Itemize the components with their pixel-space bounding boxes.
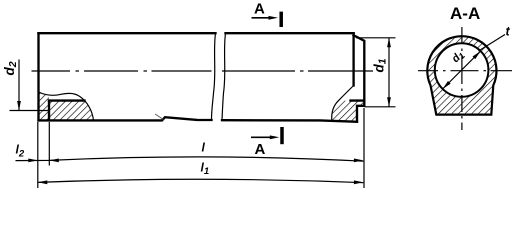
svg-text:A: A <box>254 1 265 18</box>
svg-text:A-A: A-A <box>450 4 480 23</box>
svg-text:A: A <box>255 141 266 158</box>
